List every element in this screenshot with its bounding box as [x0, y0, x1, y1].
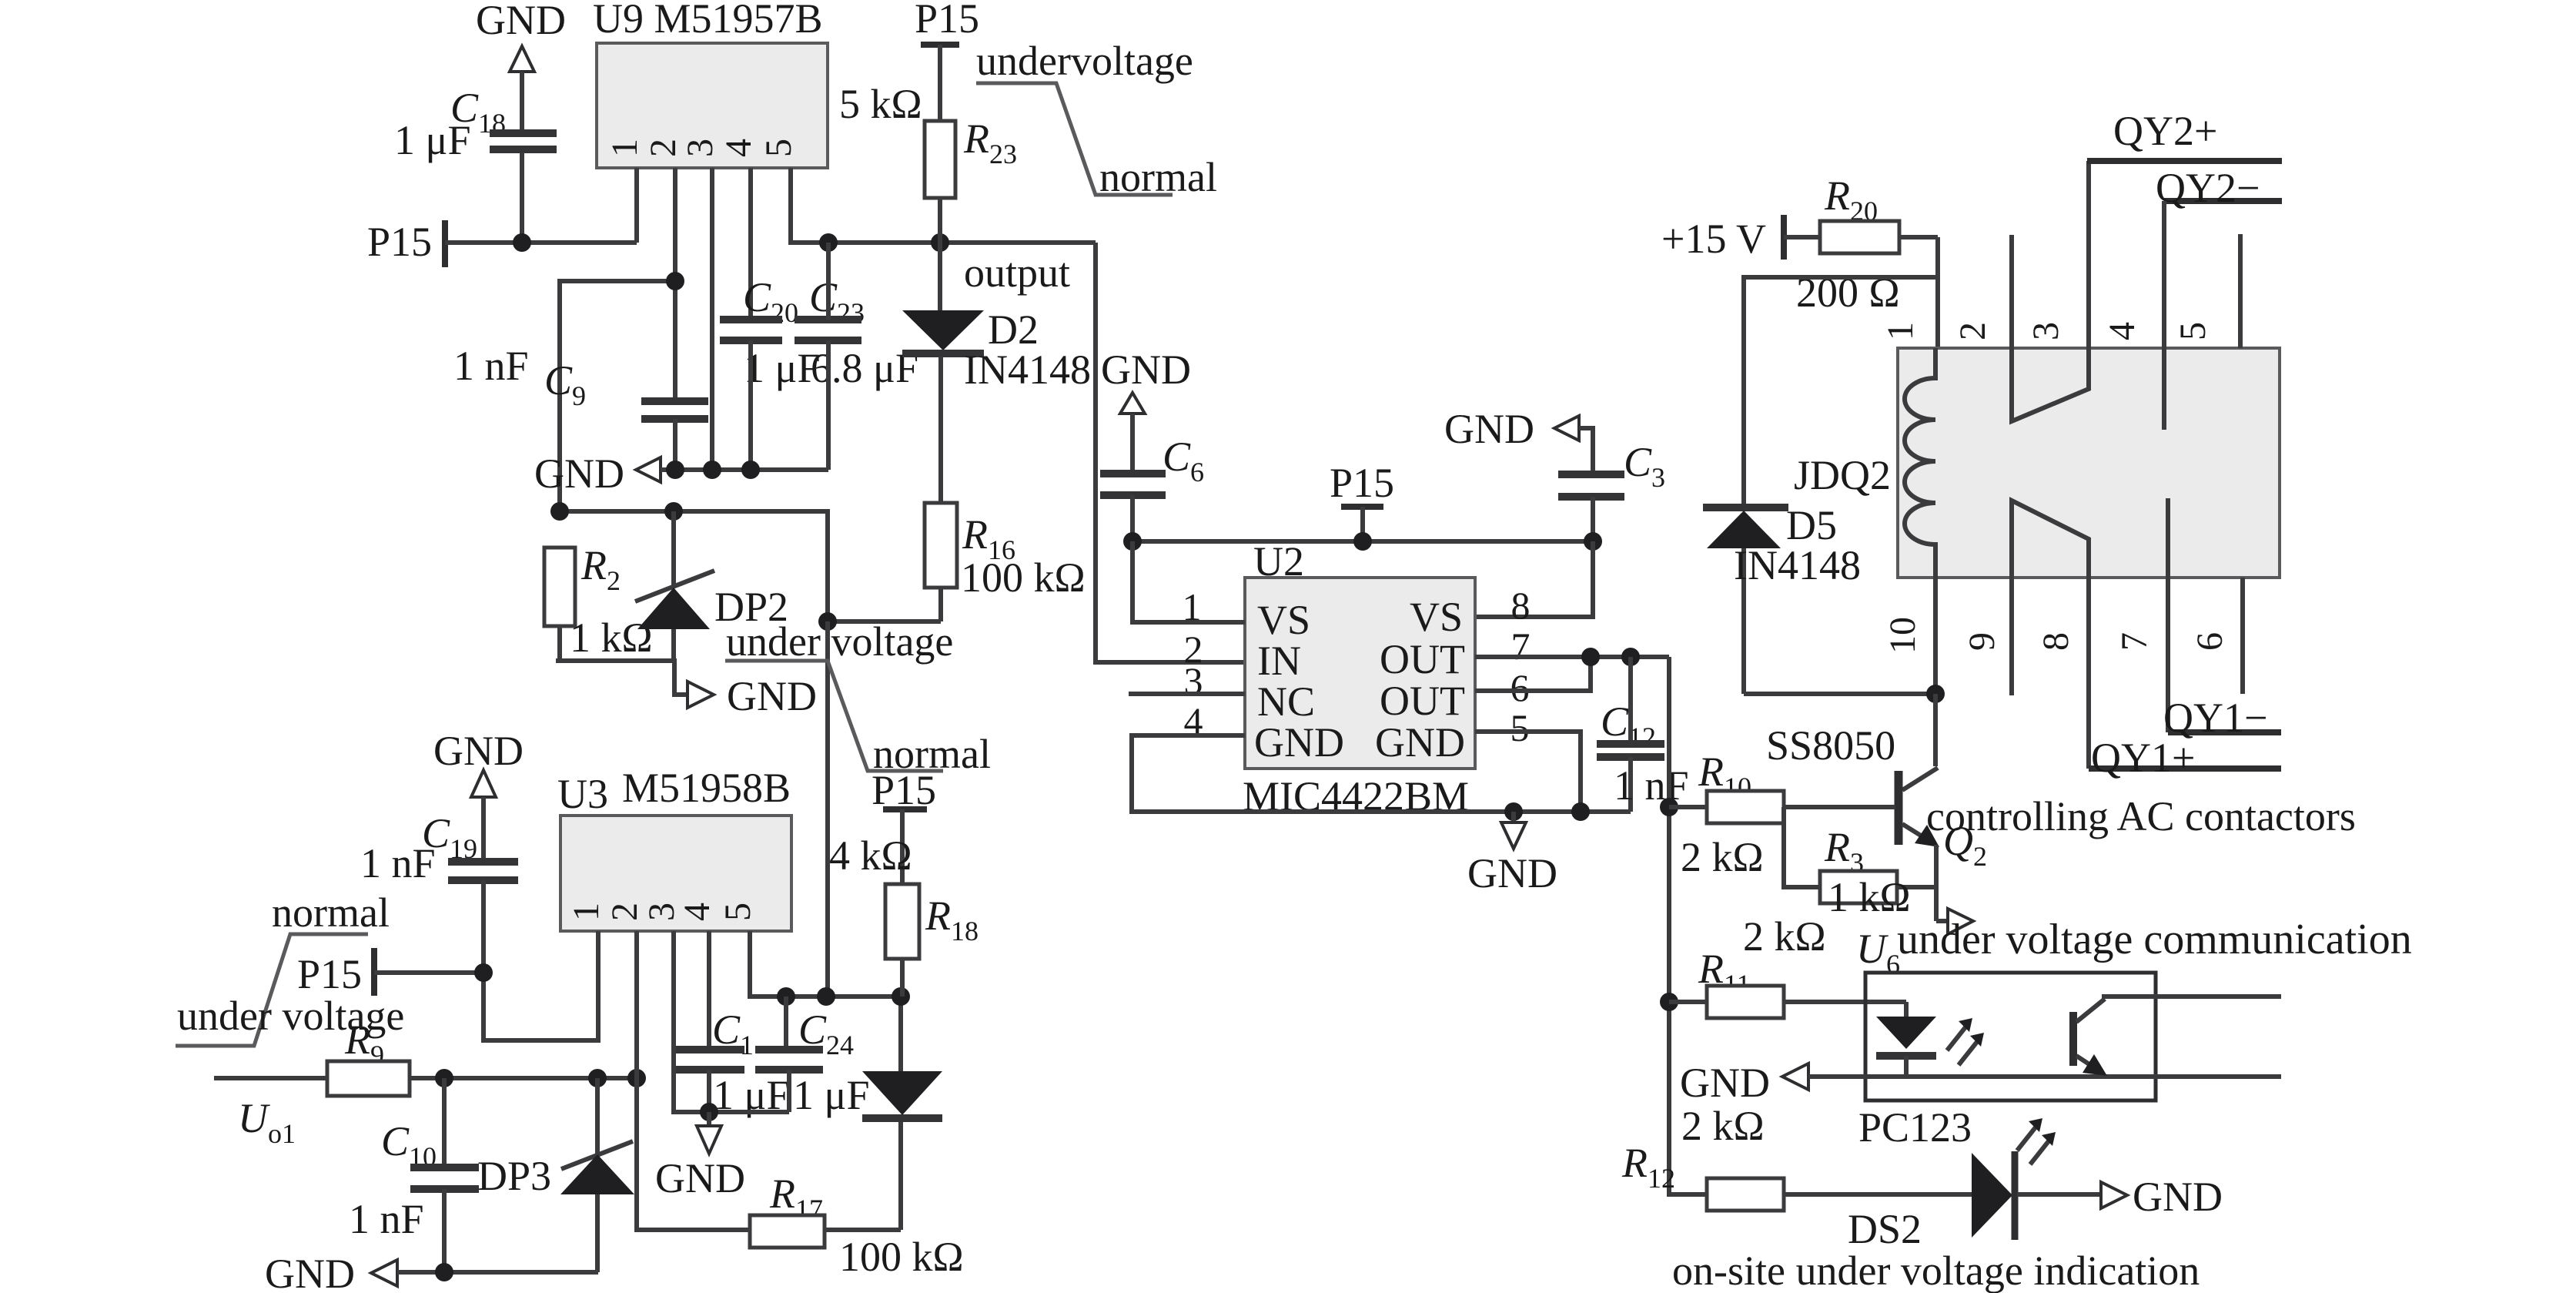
- capacitor C1: [674, 931, 789, 1118]
- wire R20 to relay pin1: [1935, 237, 1940, 387]
- node pin3 gnd: [703, 461, 721, 479]
- svg-text:5: 5: [718, 903, 758, 921]
- wire pin2 stem: [673, 168, 677, 398]
- svg-text:2: 2: [1952, 322, 1993, 340]
- svg-text:3: 3: [680, 139, 721, 157]
- resistor R17: [750, 1171, 964, 1280]
- svg-text:10: 10: [1882, 617, 1923, 654]
- optocoupler phototransistor: [2073, 999, 2107, 1076]
- node R2 top: [550, 502, 569, 521]
- svg-text:DS2: DS2: [1848, 1206, 1922, 1252]
- wire sense rail: [560, 511, 828, 621]
- ground arrow (Q2 emitter): [1936, 909, 1973, 934]
- node C12 top: [1621, 648, 1640, 666]
- ground GND (U3): [655, 1112, 745, 1201]
- svg-text:IN: IN: [1257, 638, 1301, 684]
- svg-text:5: 5: [2173, 322, 2213, 340]
- pin 5 U2: [1475, 706, 1581, 812]
- svg-text:GND: GND: [476, 0, 566, 43]
- wire pin3 stem: [710, 168, 714, 470]
- node C23 top: [819, 233, 838, 252]
- wire left branch from pin2: [560, 281, 675, 511]
- svg-text:GND: GND: [534, 451, 624, 497]
- svg-text:4 kΩ: 4 kΩ: [829, 832, 912, 879]
- wire pin3 gnd loop: [674, 931, 789, 1112]
- wire D5 to collector node: [1744, 692, 1935, 696]
- wire QY1-: [2168, 729, 2281, 735]
- terminal P15 (U2): [1330, 460, 1394, 541]
- svg-text:IN4148: IN4148: [1734, 542, 1861, 588]
- svg-text:100 kΩ: 100 kΩ: [839, 1234, 964, 1280]
- capacitor C20: [720, 274, 820, 470]
- svg-text:QY1−: QY1−: [2163, 695, 2267, 741]
- relay contact pins 2-3: [2012, 161, 2089, 421]
- svg-text:QY1+: QY1+: [2091, 735, 2195, 781]
- pin 4 U2: [1132, 699, 1631, 812]
- svg-text:1 nF: 1 nF: [453, 343, 529, 389]
- svg-text:IN4148: IN4148: [964, 347, 1091, 393]
- svg-text:OUT: OUT: [1380, 636, 1465, 682]
- ground GND (C3): [1444, 406, 1593, 474]
- diode D5: [1703, 502, 1861, 694]
- svg-text:3: 3: [2026, 322, 2066, 340]
- node R11: [1660, 993, 1678, 1011]
- LED DS2 light arrows: [2017, 1118, 2056, 1164]
- svg-text:M51958B: M51958B: [622, 765, 791, 811]
- node C3/VS: [1584, 532, 1602, 551]
- svg-text:4: 4: [2102, 322, 2143, 340]
- signal waveform normal/under voltage (left): [176, 889, 404, 1046]
- svg-text:GND: GND: [1375, 719, 1465, 765]
- node under voltage bottom: [817, 987, 835, 1006]
- svg-text:1 nF: 1 nF: [1614, 762, 1689, 809]
- svg-text:7: 7: [1511, 625, 1531, 668]
- svg-text:DP3: DP3: [477, 1153, 551, 1199]
- capacitor C10: [349, 1078, 479, 1272]
- svg-text:under voltage: under voltage: [177, 993, 404, 1039]
- wire R16 bottom to sense: [828, 619, 941, 624]
- terminal P15 (R18): [871, 767, 936, 884]
- signal waveform undervoltage/normal (top): [976, 38, 1217, 200]
- svg-text:VS: VS: [1410, 594, 1463, 640]
- wire opto collector out: [2102, 994, 2281, 999]
- node pin6/pin7: [1581, 648, 1600, 666]
- IC U9 body: [597, 43, 828, 168]
- svg-text:on-site under voltage indicati: on-site under voltage indication: [1672, 1248, 2200, 1293]
- node P15/C18: [513, 233, 531, 252]
- pin 6 U2: [1475, 657, 1591, 709]
- svg-text:5 kΩ: 5 kΩ: [839, 81, 922, 127]
- capacitor C9: [453, 343, 708, 470]
- resistor R12: [1621, 1103, 1972, 1211]
- svg-text:8: 8: [1511, 584, 1531, 627]
- node gnd stem: [1504, 802, 1523, 821]
- signal waveform under voltage/normal (mid): [725, 661, 991, 777]
- ground arrow (DP2): [687, 682, 714, 708]
- svg-text:GND: GND: [1444, 406, 1534, 452]
- node R10: [1660, 798, 1678, 816]
- svg-text:U9 M51957B: U9 M51957B: [593, 0, 823, 42]
- svg-text:OUT: OUT: [1380, 678, 1465, 724]
- capacitor C6: [1100, 434, 1204, 541]
- svg-text:JDQ2: JDQ2: [1794, 452, 1891, 498]
- capacitor C3: [1558, 439, 1665, 541]
- wire pin8 VS: [1475, 541, 1593, 617]
- relay JDQ2 body: [1898, 348, 2280, 578]
- svg-text:2: 2: [643, 139, 684, 157]
- optocoupler U6 PC123 body: [1865, 973, 2156, 1100]
- zener diode DP2: [635, 511, 788, 661]
- svg-text:GND: GND: [1254, 719, 1344, 765]
- svg-text:GND: GND: [655, 1155, 745, 1201]
- capacitor C19: [360, 810, 518, 973]
- wire pin2 stem down: [637, 931, 750, 1230]
- svg-text:1 nF: 1 nF: [360, 840, 436, 886]
- wire P15 loop to pin1: [374, 931, 598, 1040]
- capacitor C23: [795, 243, 918, 470]
- resistor R16: [925, 503, 1086, 621]
- svg-text:4: 4: [718, 139, 759, 157]
- svg-text:GND: GND: [1680, 1060, 1770, 1106]
- svg-text:normal: normal: [272, 889, 390, 936]
- terminal P15 (left): [367, 219, 445, 267]
- svg-text:100 kΩ: 100 kΩ: [961, 554, 1086, 601]
- ground GND rail U9: [534, 451, 828, 497]
- node C10 branch: [435, 1069, 453, 1087]
- svg-text:GND: GND: [727, 673, 817, 719]
- wire P15 to pin1: [445, 168, 637, 243]
- svg-text:6: 6: [2190, 632, 2230, 651]
- svg-text:normal: normal: [1099, 154, 1217, 200]
- svg-text:1: 1: [604, 139, 645, 157]
- wire VS rail: [1132, 539, 1593, 544]
- svg-text:P15: P15: [367, 219, 432, 265]
- wire output net: [1096, 243, 1245, 662]
- node C24 top: [777, 987, 795, 1006]
- wire QY2+: [2087, 158, 2282, 164]
- svg-text:undervoltage: undervoltage: [976, 38, 1193, 84]
- node C19/P15: [474, 963, 493, 982]
- relay contact pins 9-8: [2012, 501, 2089, 769]
- node diode/R18: [892, 987, 910, 1006]
- node R23/D2/output: [931, 233, 949, 252]
- ground GND (U2): [1467, 812, 1557, 896]
- wire R2/DP2 bottom to gnd: [556, 661, 687, 695]
- ground GND (C10): [265, 1251, 598, 1293]
- svg-text:GND: GND: [1467, 850, 1557, 896]
- resistor R20: [1784, 173, 1938, 316]
- transistor Q2: [1766, 694, 1987, 921]
- wire under voltage vertical: [825, 621, 830, 997]
- node C10 gnd: [435, 1263, 453, 1281]
- svg-text:+15 V: +15 V: [1661, 216, 1766, 262]
- capacitor C24: [755, 997, 869, 1118]
- node sense/under-voltage: [818, 612, 837, 631]
- relay pin 5 stub: [2238, 234, 2243, 348]
- capacitor C12: [1597, 657, 1689, 812]
- node DP2 top: [664, 502, 683, 521]
- ground GND (PC123): [1680, 1060, 1808, 1106]
- node DP3 branch: [588, 1069, 607, 1087]
- resistor R3: [1784, 807, 1936, 920]
- svg-text:1 kΩ: 1 kΩ: [1828, 874, 1911, 920]
- svg-text:1: 1: [1880, 322, 1921, 340]
- svg-text:2: 2: [604, 903, 645, 921]
- pin 7 U2: [1475, 625, 1669, 668]
- ground GND (C6): [1101, 347, 1191, 473]
- relay pin 4 wire: [2162, 201, 2166, 430]
- relay pin 7 wire: [2166, 498, 2170, 732]
- svg-text:8: 8: [2036, 632, 2076, 651]
- resistor R18: [829, 832, 979, 997]
- svg-text:P15: P15: [297, 951, 362, 997]
- resistor R9: [214, 1017, 637, 1096]
- IC U2 body: [1245, 578, 1475, 769]
- svg-text:1 μF: 1 μF: [394, 117, 470, 163]
- node C6: [1123, 532, 1142, 551]
- svg-text:1 μF: 1 μF: [744, 345, 820, 391]
- wire U3 bottom rail: [750, 931, 901, 997]
- svg-text:2 kΩ: 2 kΩ: [1743, 913, 1826, 960]
- capacitor C18: [394, 85, 557, 243]
- ground GND (DS2): [2101, 1174, 2223, 1220]
- wire QY2-: [2164, 198, 2282, 204]
- optocoupler light arrows: [1947, 1018, 1984, 1065]
- svg-text:P15: P15: [915, 0, 979, 42]
- svg-text:D5: D5: [1786, 502, 1837, 548]
- relay coil: [1905, 348, 1935, 694]
- LED DS2: [1848, 1151, 2101, 1252]
- wire OUT net vertical: [1669, 657, 1707, 1194]
- svg-text:GND: GND: [1101, 347, 1191, 393]
- svg-text:controlling AC contactors: controlling AC contactors: [1926, 793, 2356, 839]
- zener diode DP3: [477, 1078, 634, 1272]
- svg-text:1 μF: 1 μF: [793, 1072, 869, 1118]
- svg-text:GND: GND: [2133, 1174, 2223, 1220]
- wire pin4 stem: [748, 168, 753, 317]
- node C1 gnd: [700, 1103, 718, 1121]
- svg-text:NC: NC: [1257, 678, 1315, 725]
- svg-text:2 kΩ: 2 kΩ: [1681, 1103, 1765, 1149]
- terminal P15 (top): [915, 0, 979, 121]
- node P15/VS: [1353, 532, 1372, 551]
- wire D5 branch: [1744, 277, 1938, 504]
- wire pin5 to output node: [791, 168, 1096, 243]
- wire QY1+: [2089, 765, 2281, 772]
- svg-text:6: 6: [1510, 666, 1530, 709]
- diode (U3 output): [862, 997, 942, 1230]
- svg-text:GND: GND: [265, 1251, 355, 1293]
- node C20 gnd: [741, 461, 760, 479]
- resistor R10: [1669, 749, 1895, 880]
- resistor R2: [544, 542, 653, 661]
- relay pin 6 stub: [2240, 578, 2245, 694]
- node pin5 gnd: [1571, 802, 1590, 821]
- node C9 gnd: [666, 461, 684, 479]
- terminal +15 V: [1661, 215, 1784, 262]
- node pin2/branch: [666, 272, 684, 290]
- svg-text:2 kΩ: 2 kΩ: [1681, 834, 1764, 880]
- svg-text:under voltage communication: under voltage communication: [1897, 916, 2412, 963]
- terminal P15 (U3): [297, 948, 374, 997]
- diode D2: [902, 243, 1091, 503]
- ground symbol GND (above C19): [433, 728, 524, 861]
- svg-text:SS8050: SS8050: [1766, 722, 1895, 769]
- resistor R11: [1669, 946, 1906, 1018]
- resistor R23: [839, 81, 1017, 243]
- svg-text:5: 5: [758, 139, 799, 157]
- svg-text:QY2−: QY2−: [2156, 165, 2260, 211]
- svg-text:9: 9: [1962, 632, 2002, 651]
- svg-text:1 kΩ: 1 kΩ: [570, 615, 653, 661]
- IC U3 body: [560, 816, 791, 931]
- optocoupler LED: [1876, 1002, 1936, 1076]
- svg-text:4: 4: [677, 903, 718, 921]
- svg-text:QY2+: QY2+: [2113, 108, 2217, 154]
- ground symbol GND (above C18): [476, 0, 566, 132]
- pin 1 U2: [1132, 541, 1245, 628]
- svg-text:VS: VS: [1257, 597, 1310, 643]
- svg-text:5: 5: [1510, 706, 1530, 749]
- svg-text:1 nF: 1 nF: [349, 1196, 424, 1242]
- wire LED cathode / emitter rail: [1808, 1074, 2281, 1079]
- svg-text:P15: P15: [1330, 460, 1394, 506]
- svg-text:PC123: PC123: [1858, 1104, 1972, 1151]
- pin 3 U2: [1129, 659, 1245, 702]
- svg-text:GND: GND: [433, 728, 524, 774]
- node coil/D5/Q2: [1926, 685, 1945, 703]
- svg-text:under voltage: under voltage: [726, 618, 953, 665]
- svg-text:D2: D2: [988, 307, 1039, 353]
- svg-text:7: 7: [2114, 632, 2155, 651]
- svg-text:U3: U3: [557, 771, 608, 817]
- svg-text:1: 1: [566, 903, 607, 921]
- node pin2/R17: [627, 1069, 646, 1087]
- svg-text:output: output: [964, 250, 1070, 296]
